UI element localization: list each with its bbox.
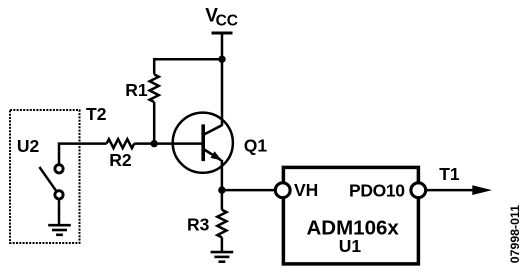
svg-text:R1: R1: [125, 80, 148, 100]
svg-text:CC: CC: [216, 13, 238, 30]
wire emitter node to VH pin: [222, 189, 276, 192]
Vcc label: [205, 5, 238, 29]
wire collector vertical: [221, 59, 224, 126]
svg-text:VH: VH: [294, 180, 318, 200]
IC U1 box ADM106x: [283, 167, 418, 264]
resistor R2: [107, 139, 135, 148]
wire R1 bottom lead to base node: [153, 102, 156, 144]
svg-text:R2: R2: [109, 150, 132, 170]
svg-text:U1: U1: [339, 236, 362, 256]
node collector-top junction: [218, 56, 225, 63]
transistor Q1: [173, 113, 233, 173]
svg-text:Q1: Q1: [244, 136, 268, 156]
wire R3 bottom lead: [221, 237, 224, 252]
arrowhead T1 output: [472, 185, 492, 195]
svg-text:R3: R3: [187, 215, 210, 235]
resistor R1: [150, 74, 159, 102]
pin PDO10 circle: [411, 183, 426, 198]
ground (R3): [211, 252, 234, 262]
wire R3 top lead: [221, 190, 224, 210]
switch top wire corner: [59, 144, 107, 164]
wire emitter vertical: [221, 160, 224, 190]
svg-text:U2: U2: [17, 136, 40, 156]
Vcc supply symbol: [212, 33, 233, 59]
node base junction: [151, 140, 158, 147]
ground (switch): [48, 225, 71, 235]
svg-text:07998-011: 07998-011: [508, 205, 522, 263]
wire R1 top lead: [153, 58, 156, 74]
resistor R3: [217, 210, 226, 238]
wire R2 to base: [134, 142, 202, 145]
switch lower contact circle: [55, 191, 63, 199]
switch upper contact circle: [55, 165, 63, 173]
svg-text:T1: T1: [439, 164, 460, 184]
wire PDO10 output: [425, 189, 475, 192]
pin VH circle: [275, 183, 290, 198]
svg-text:PDO10: PDO10: [349, 181, 405, 201]
wire top horizontal from R1 to collector node: [154, 58, 222, 61]
node emitter junction: [218, 186, 225, 193]
svg-text:T2: T2: [86, 104, 107, 124]
wire lower contact to ground: [58, 200, 61, 225]
switch blade: [39, 167, 56, 191]
dotted box (relay/switch module): [10, 110, 80, 243]
